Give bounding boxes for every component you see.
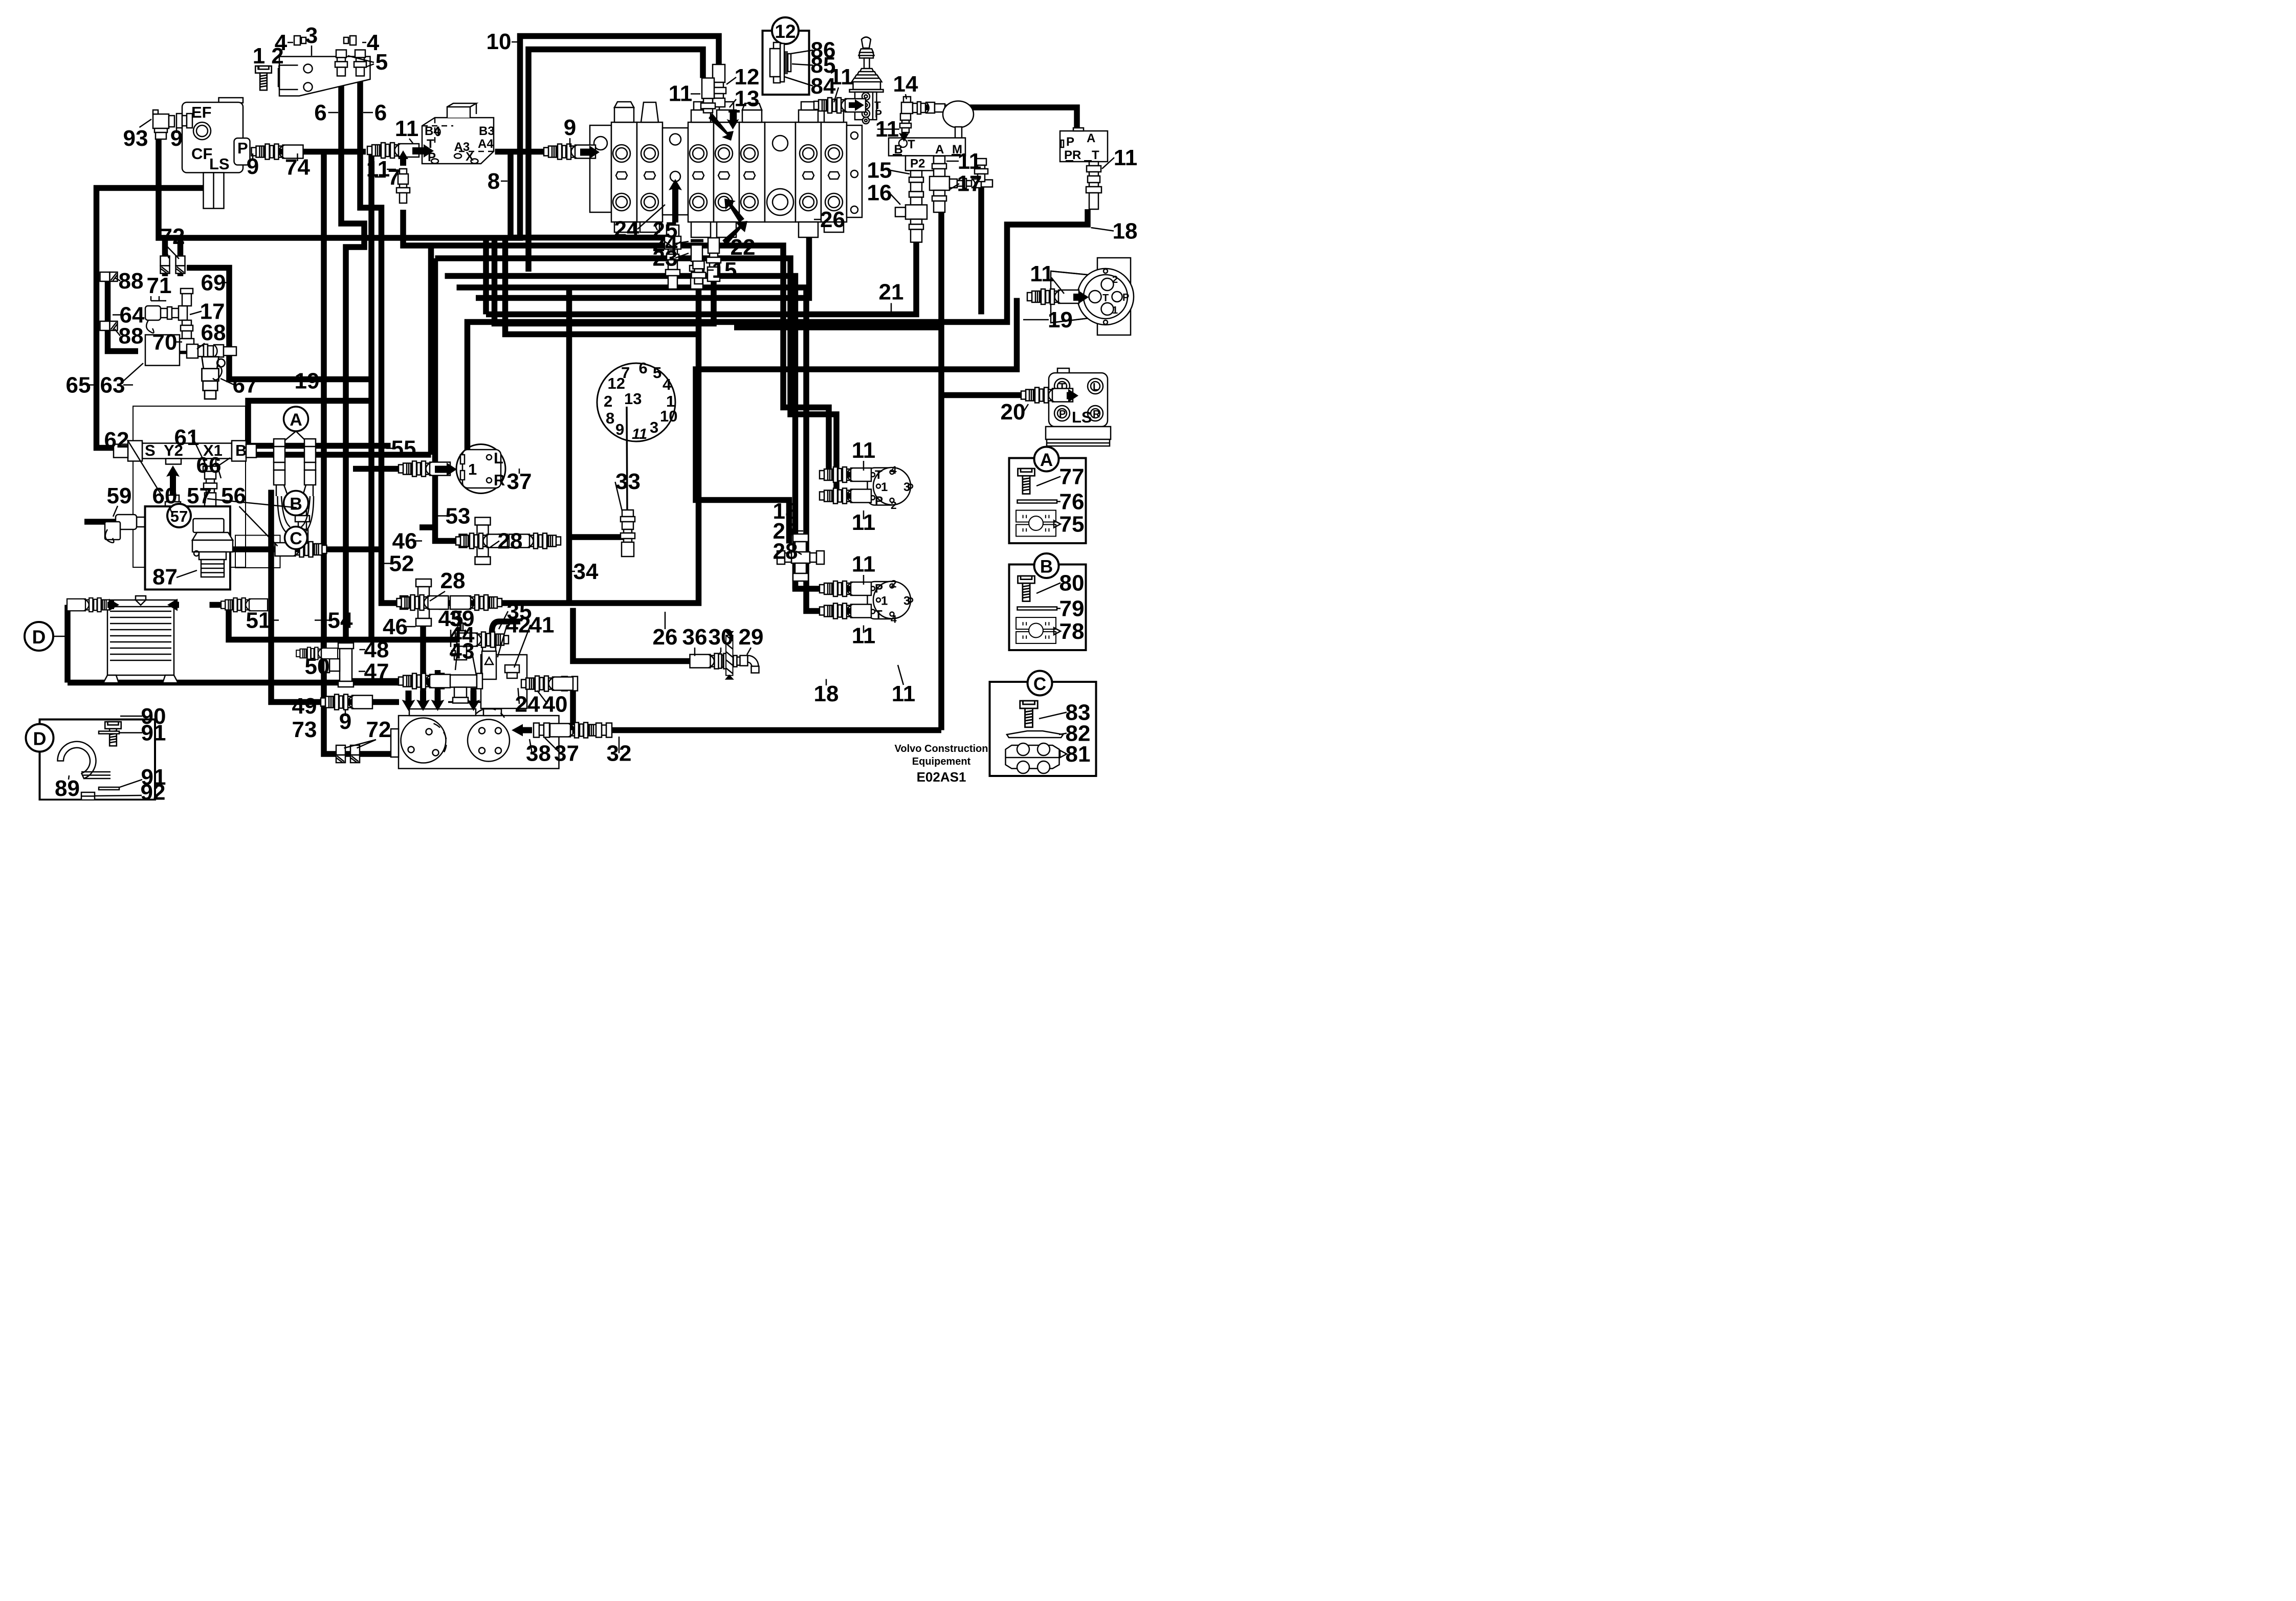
A port tee 17 and fitting 11 (930, 156, 992, 212)
svg-text:B: B (290, 495, 302, 514)
svg-text:11: 11 (632, 426, 647, 442)
wire: hose 66 from B port right and up and right (198, 401, 371, 449)
svg-text:19: 19 (295, 369, 320, 394)
wire: hose 65/64 top loop from LS (97, 188, 214, 277)
svg-text:1: 1 (1112, 305, 1118, 316)
svg-text:72: 72 (366, 717, 391, 742)
svg-text:75: 75 (1059, 512, 1085, 537)
wire: pump1 T row fittings (849, 469, 870, 481)
svg-text:2: 2 (891, 500, 897, 512)
wire: hose 35 row bend up to check valve 42 (485, 621, 521, 654)
svg-text:40: 40 (543, 692, 568, 717)
svg-text:88: 88 (119, 269, 144, 294)
svg-text:57: 57 (170, 507, 188, 525)
svg-text:43: 43 (450, 639, 475, 664)
svg-text:L: L (1093, 382, 1099, 393)
svg-text:37: 37 (554, 741, 579, 766)
clamps 88 (100, 272, 118, 281)
manifold block A3/B4 (422, 103, 495, 164)
svg-text:78: 78 (1059, 619, 1085, 644)
cross 28c near pumps (777, 534, 824, 581)
svg-text:68: 68 (201, 320, 226, 345)
svg-text:30: 30 (709, 625, 734, 650)
L port with arrow (168, 542, 184, 557)
svg-text:61: 61 (174, 425, 200, 450)
arrow into pump right (38/37) (512, 724, 532, 737)
fittings 46/28 crosses center bottom (459, 518, 506, 565)
wire: pump2 rows to fittings (849, 583, 870, 595)
valve bank (590, 102, 862, 246)
svg-text:55: 55 (391, 436, 416, 461)
svg-text:4: 4 (663, 375, 672, 393)
svg-text:12: 12 (608, 374, 625, 392)
wire: row 1060 right to pump1 P (435, 258, 850, 496)
wire: row 1170 right to pump2 T (457, 287, 850, 611)
plug 41 (505, 665, 519, 673)
svg-text:66: 66 (196, 453, 222, 478)
fitting 15 below (692, 261, 706, 284)
fitting 9 lower left of pump (321, 695, 372, 710)
svg-text:3: 3 (903, 480, 910, 494)
svg-text:11: 11 (892, 681, 916, 706)
svg-text:65: 65 (66, 373, 91, 398)
clamps 72 top (165, 238, 181, 276)
tee 68 with fitting right (187, 344, 236, 358)
svg-text:1: 1 (253, 43, 265, 69)
svg-text:P: P (1066, 135, 1074, 149)
svg-text:60: 60 (152, 483, 178, 508)
dashed pilot lines with arrows into pump top (389, 700, 481, 704)
svg-text:13: 13 (624, 390, 642, 408)
svg-text:46: 46 (383, 614, 408, 639)
svg-text:T: T (1092, 148, 1099, 162)
svg-text:6: 6 (314, 100, 326, 125)
svg-text:38: 38 (526, 741, 551, 766)
svg-text:51: 51 (246, 608, 271, 633)
wire: hose from A port of accumulator block down to row (936, 194, 947, 730)
svg-text:48: 48 (364, 637, 389, 662)
svg-text:69: 69 (201, 271, 226, 296)
svg-text:89: 89 (55, 776, 80, 800)
svg-text:29: 29 (739, 625, 764, 650)
arrow up into Y2 (166, 465, 180, 501)
fitting 5 left stack on hose 6 (335, 50, 347, 76)
D flag circle (25, 622, 53, 651)
svg-text:B3: B3 (479, 124, 495, 138)
detail box B (1009, 553, 1086, 650)
items 84/85/86 small hardware (770, 42, 791, 83)
fitting 11 stack left of 12 (701, 78, 715, 113)
svg-text:62: 62 (104, 428, 129, 453)
wire: hose 64 vertical (108, 276, 139, 351)
P2 fittings 15/16 (895, 171, 927, 242)
svg-text:80: 80 (1059, 571, 1085, 596)
svg-text:11: 11 (1114, 145, 1138, 170)
svg-text:4: 4 (891, 464, 897, 476)
wire: stub below fitting 15 (505, 238, 699, 335)
bottom caps (614, 222, 634, 232)
svg-text:19: 19 (1048, 307, 1073, 332)
big ratio circle (597, 359, 677, 510)
wire: hose 7 from manifold T fitting down, right to fitting 35 (371, 151, 391, 640)
wire: stub below fitting 23 (439, 289, 699, 603)
svg-text:8: 8 (488, 169, 500, 194)
wire: riser of hose 21 left end (480, 240, 492, 315)
svg-text:4: 4 (275, 30, 288, 55)
fitting 4 left (294, 36, 306, 45)
fitting 11 with arrow into manifold T (367, 143, 419, 158)
elbow 14 with fitting (901, 97, 945, 114)
bracket 3 (279, 57, 370, 96)
joystick (850, 37, 884, 124)
svg-text:11: 11 (366, 157, 390, 182)
valve 39/45 above tee 44 (452, 623, 467, 660)
svg-text:Equipement: Equipement (912, 756, 971, 767)
wire: hose 56/57 into L port (210, 544, 382, 555)
svg-text:T: T (908, 138, 915, 151)
quick coupler 71 with tee 17 on top of block 63 (145, 288, 194, 351)
svg-text:76: 76 (1059, 490, 1085, 515)
tee 48/47 on line 54 (324, 643, 354, 687)
svg-text:X: X (466, 150, 474, 164)
svg-text:17: 17 (957, 171, 982, 196)
pump 1 (upper small pump) (868, 464, 913, 512)
svg-text:73: 73 (292, 717, 317, 742)
fitting 20 into T (1021, 388, 1073, 403)
svg-text:2: 2 (1112, 274, 1118, 285)
port circles (613, 145, 843, 211)
svg-text:91: 91 (141, 721, 166, 746)
detail box 12 top right (763, 17, 809, 95)
svg-text:24: 24 (614, 217, 639, 242)
wire: accumulator line 14 (911, 107, 1077, 131)
svg-text:87: 87 (152, 565, 178, 590)
svg-text:10: 10 (487, 29, 512, 54)
svg-text:26: 26 (820, 207, 845, 232)
svg-text:33: 33 (615, 469, 641, 494)
wire: hose 26 from joystick fitting down and left (476, 105, 809, 298)
fitting 22 (707, 238, 721, 281)
svg-text:1: 1 (468, 460, 477, 478)
wire: hose 53 down to cross 28a (435, 258, 461, 541)
wire: EF elbow 93 hose down/right, up to hose 10a, to fitting 12 at valve bank (159, 36, 719, 238)
svg-text:23: 23 (653, 246, 678, 271)
detail box D (26, 720, 156, 800)
svg-text:PR: PR (1064, 148, 1081, 162)
svg-text:59: 59 (107, 483, 132, 508)
tee 62 with quick coupler 59 (105, 495, 185, 540)
svg-text:2: 2 (604, 392, 612, 410)
svg-text:11: 11 (669, 81, 693, 106)
arrows into ports (709, 113, 734, 141)
riser block on top right (481, 655, 527, 708)
block 63 (145, 335, 180, 366)
svg-text:49: 49 (292, 694, 317, 719)
svg-text:21: 21 (879, 280, 904, 305)
svg-text:11: 11 (958, 149, 982, 174)
wire: hose 27 cross fitting row (789, 542, 801, 589)
svg-text:1: 1 (881, 480, 888, 494)
block 20 T/L/P/LS/R (1046, 368, 1111, 446)
M port fitting (975, 159, 988, 182)
svg-text:52: 52 (389, 551, 414, 576)
svg-text:9: 9 (615, 420, 624, 438)
svg-text:P: P (875, 582, 883, 596)
svg-text:4: 4 (891, 614, 897, 626)
svg-text:L: L (494, 449, 503, 467)
elbow 93 (153, 110, 174, 139)
bolt 1 (255, 66, 272, 90)
small circle L/R with fitting 37 (456, 444, 505, 494)
svg-text:T: T (875, 608, 882, 622)
svg-text:92: 92 (141, 780, 166, 801)
fitting 5 right stack on hose 6 (354, 50, 366, 76)
svg-text:56: 56 (221, 483, 246, 508)
fitting 11 elbow above T of accumulator block (900, 114, 911, 132)
svg-text:B: B (1040, 557, 1053, 577)
svg-text:63: 63 (100, 373, 125, 398)
svg-text:57: 57 (187, 483, 212, 508)
S/Y2/X1/B block (114, 406, 280, 568)
svg-text:C: C (290, 529, 302, 548)
svg-text:Volvo Construction: Volvo Construction (895, 743, 988, 754)
svg-text:P: P (875, 494, 883, 508)
svg-text:3: 3 (305, 23, 318, 48)
wire: hose 21 row to P2 vertical (486, 202, 916, 315)
fittings 57/56 on L line (295, 499, 310, 542)
svg-text:41: 41 (529, 613, 555, 638)
svg-text:LS: LS (209, 155, 230, 173)
detail box 57 (145, 504, 233, 590)
fitting 36 and items 30/29 (690, 654, 742, 669)
svg-text:28: 28 (498, 529, 523, 554)
fittings below valve bank: 25 (665, 225, 681, 289)
svg-text:47: 47 (364, 659, 389, 684)
svg-text:15: 15 (712, 258, 737, 283)
svg-text:2: 2 (891, 579, 897, 590)
svg-text:70: 70 (152, 330, 178, 355)
svg-text:A: A (290, 410, 302, 430)
wire: hose 40 from pump top right (559, 684, 573, 730)
svg-text:A4: A4 (478, 137, 494, 151)
svg-text:20: 20 (1001, 399, 1026, 425)
detail box A (1009, 447, 1086, 544)
svg-text:77: 77 (1059, 464, 1085, 490)
svg-text:16: 16 (867, 181, 892, 206)
steering unit (1051, 258, 1134, 335)
wire: hose 51 from comb down left (271, 490, 399, 702)
wire: pump1 P row (849, 490, 870, 502)
svg-text:9: 9 (564, 115, 576, 140)
svg-text:11: 11 (852, 438, 876, 463)
wire: hose from M port right and down to bottom right row into pump rear (976, 181, 987, 315)
wire: hose 18 from PR/T block left, down, long row left, down to comb lower row (468, 209, 1088, 455)
wire: hose 33 from ratio circle down (569, 287, 628, 604)
svg-text:S: S (145, 441, 156, 459)
svg-text:10: 10 (660, 407, 677, 425)
svg-text:11: 11 (852, 552, 876, 577)
wire: hose 6 right from bracket down as line 52 to cross 28b (360, 76, 409, 604)
svg-text:A: A (1087, 131, 1095, 145)
svg-text:D: D (33, 728, 47, 749)
svg-text:6: 6 (374, 100, 387, 125)
svg-text:13: 13 (735, 86, 760, 112)
svg-text:R: R (1093, 409, 1100, 420)
svg-text:R: R (494, 471, 505, 489)
radiator hose fittings with arrows (67, 598, 114, 612)
svg-text:50: 50 (305, 654, 330, 679)
wire: hose from tee 62 bottom row left (84, 516, 143, 528)
svg-text:8: 8 (606, 409, 614, 427)
wire: hook from row 1009 down to comb row 1790 (425, 246, 437, 455)
bottom pump unit (389, 619, 602, 769)
wire: hose 50 row from radiator area right to tee 44 (68, 677, 501, 688)
fitting 11 with arrow into joystick (814, 98, 866, 113)
wire: line 54 below tee 47 to row, right to tee 44 into pump block (346, 675, 501, 681)
svg-text:3: 3 (903, 594, 910, 608)
fitting 11 on X port below manifold (396, 169, 410, 203)
svg-text:15: 15 (867, 158, 892, 183)
wire: hose 37 into L/R circle (420, 522, 435, 533)
svg-text:12: 12 (735, 64, 760, 90)
wire: hose 8 stub from manifold to fitting 9 at valve bank (495, 146, 545, 158)
svg-text:A: A (1040, 450, 1053, 470)
clamps 72 bottom (336, 745, 345, 763)
wire: hose 65 vertical to S port (97, 276, 124, 448)
check valve 42 (482, 651, 496, 679)
accumulator block B T A M (889, 138, 965, 171)
wire: hose 20 from right block left (941, 389, 1022, 401)
fitting 9 on P port (252, 144, 303, 160)
fitting 9 arrow into valve bank (544, 144, 595, 160)
svg-text:C: C (1033, 674, 1046, 694)
fitting 4 right (344, 36, 356, 45)
wire: hose 19 from steering unit down left (696, 298, 1017, 544)
wire: hose 8 vertical down and right to below valve bank (511, 152, 673, 290)
svg-text:81: 81 (1066, 742, 1091, 767)
svg-text:1: 1 (881, 594, 888, 608)
PR T block right (1060, 128, 1108, 162)
svg-text:EF: EF (191, 103, 212, 121)
svg-text:93: 93 (123, 126, 148, 151)
wire: hose 74 from P port down left side to bottom row 73 to pump (252, 146, 366, 158)
svg-text:3: 3 (650, 418, 658, 436)
wire: hose 32 from pump arrow right (512, 724, 534, 736)
detail box C (990, 671, 1096, 776)
svg-text:28: 28 (773, 539, 798, 564)
fitting 11 into steering T (1027, 289, 1079, 304)
fitting 9 on EF port (176, 114, 192, 128)
wire: hose 32 row (572, 724, 942, 736)
wire: 68 fitting row from block 63 right (176, 345, 187, 357)
svg-text:11: 11 (395, 116, 419, 141)
svg-text:P2: P2 (910, 157, 925, 171)
test point 67 (202, 357, 225, 399)
X1 fitting 61 down (203, 459, 217, 508)
wire: hose from manifold X port down to row 1009, right and down to pump1 T (403, 210, 849, 475)
fitting 40 on riser right (562, 677, 578, 691)
svg-text:72: 72 (160, 224, 185, 249)
fitting on hose 35 (457, 632, 509, 648)
washer 2 (278, 69, 281, 86)
svg-text:T: T (875, 468, 882, 482)
svg-text:84: 84 (811, 74, 836, 99)
svg-text:71: 71 (147, 273, 172, 298)
svg-text:12: 12 (775, 21, 796, 42)
wire: comb row 1790 through clamps (164, 449, 431, 461)
wire: row 1124 right to pump2 P (445, 276, 850, 589)
wire: comb row 55 (164, 440, 391, 452)
wire: stub below fitting 22 (495, 238, 714, 324)
pump 2 (lower small pump) (868, 579, 913, 626)
svg-text:5: 5 (376, 50, 388, 75)
accumulator (943, 101, 974, 128)
fittings 24/38 labels area (fitting on hose 32) (596, 723, 612, 738)
svg-text:6: 6 (639, 359, 648, 377)
svg-text:54: 54 (328, 608, 353, 633)
fitting 23/24 (691, 239, 703, 242)
svg-text:36: 36 (682, 625, 708, 650)
svg-text:88: 88 (119, 324, 144, 349)
svg-text:A: A (935, 143, 944, 157)
fitting 11 below PR/T block T port (1086, 162, 1101, 209)
svg-text:5: 5 (653, 364, 661, 382)
svg-text:B: B (235, 441, 247, 459)
svg-text:D: D (32, 627, 46, 648)
radiator (103, 596, 178, 683)
svg-text:14: 14 (893, 72, 918, 97)
priority valve EF/CF/LS (182, 98, 250, 209)
svg-text:53: 53 (446, 504, 471, 529)
svg-text:E02AS1: E02AS1 (917, 769, 966, 785)
svg-text:79: 79 (1059, 596, 1085, 621)
wire: hose 6 left from bracket, jog, down as line 54 to tee 48 (341, 76, 364, 657)
tee 44 on pump top row (438, 674, 482, 703)
svg-text:11: 11 (1030, 261, 1054, 286)
svg-text:18: 18 (1113, 219, 1138, 244)
svg-text:P: P (1059, 409, 1066, 420)
fitting 33 below circle (621, 510, 635, 557)
wire: hose 10b inner loop to fitting 11 (528, 50, 703, 272)
wire: radiator right hose up to row 52 (210, 605, 457, 640)
svg-text:28: 28 (440, 568, 466, 593)
svg-text:P: P (1122, 292, 1129, 303)
svg-text:T: T (1102, 293, 1109, 304)
svg-text:34: 34 (573, 559, 599, 584)
svg-text:67: 67 (233, 373, 258, 398)
wire: hose 69 from tee 17 top loop right and down to row 52 (187, 268, 371, 380)
svg-text:46: 46 (392, 529, 417, 554)
wire: hose 35/36 from bend right to fitting 36 (573, 608, 690, 661)
svg-text:LS: LS (1072, 408, 1092, 426)
wire: radiator left hose to D (68, 605, 84, 683)
fitting 12 stack top right of valve bank (712, 64, 726, 107)
svg-text:22: 22 (731, 235, 756, 260)
